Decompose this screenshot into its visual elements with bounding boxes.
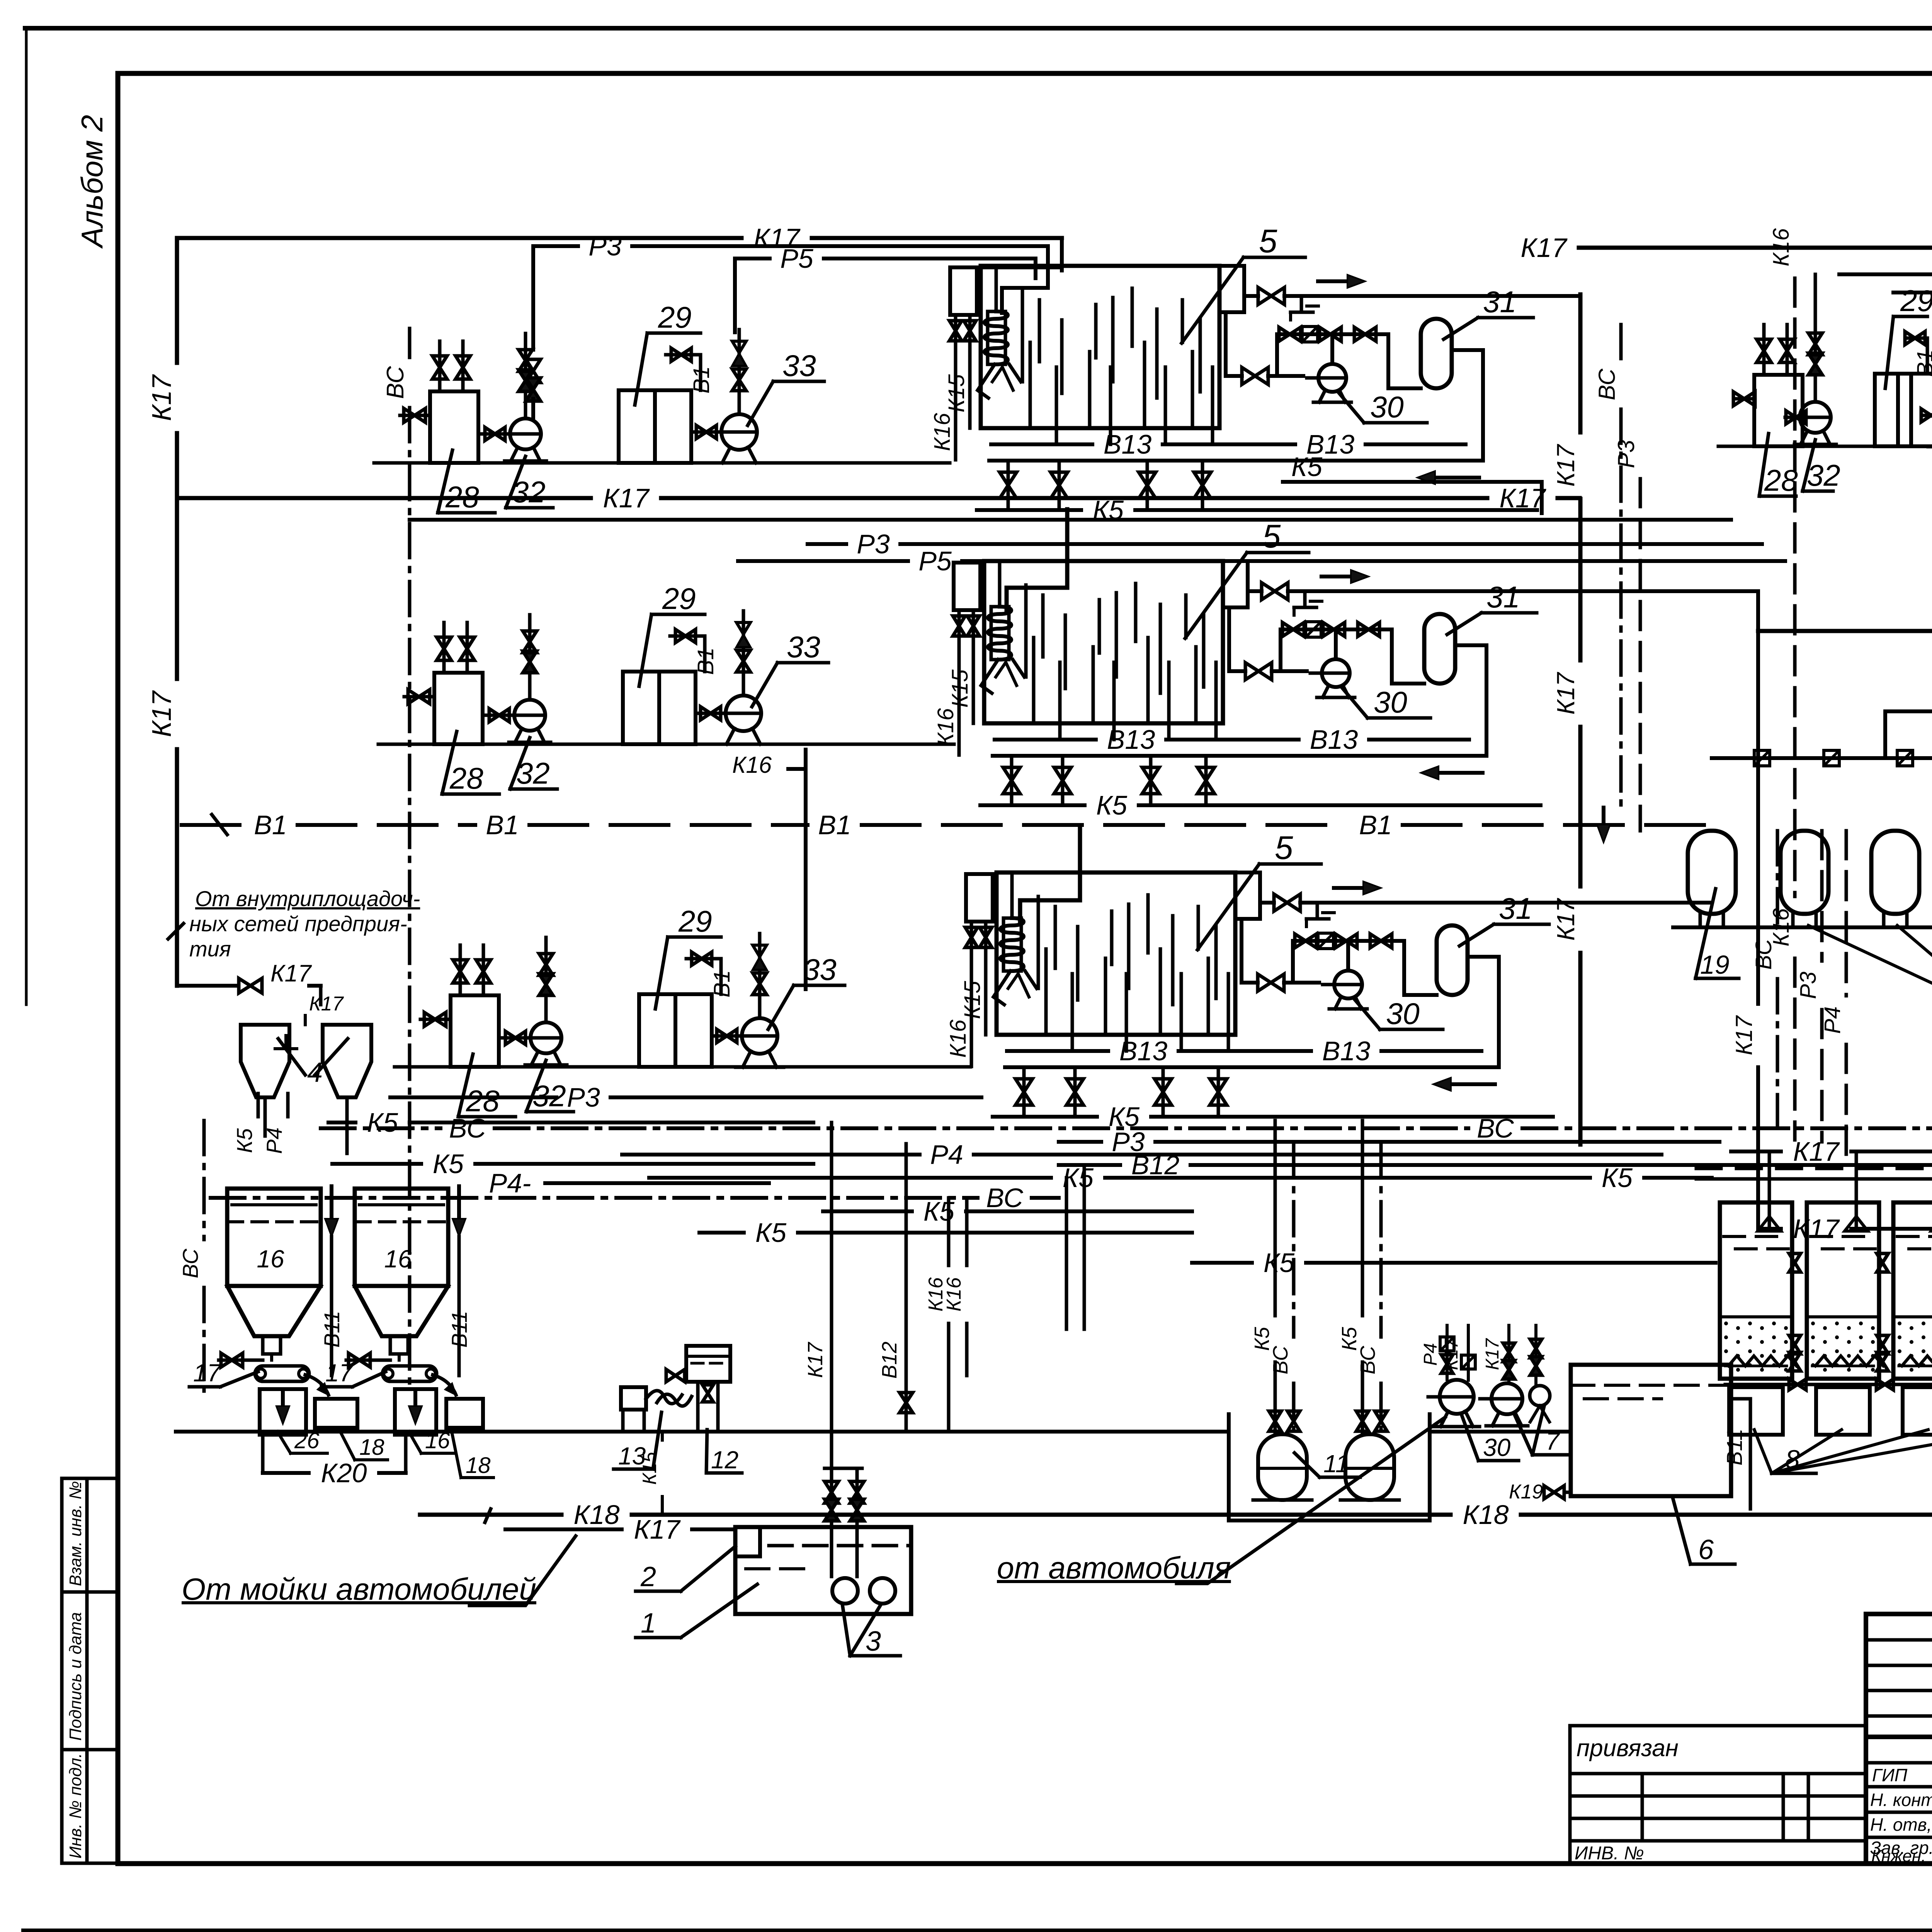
pipe P5 top header [735, 257, 770, 260]
pipe B12 dashed above filters [1696, 1167, 1932, 1170]
svg-text:В1: В1 [486, 810, 519, 840]
filter vent riser [1768, 1151, 1771, 1229]
pipe under dosing sets [410, 518, 1731, 522]
svg-text:28: 28 [449, 761, 483, 795]
svg-text:К15: К15 [947, 669, 973, 707]
svg-text:32: 32 [1807, 458, 1840, 492]
pit with vessels 11 [1229, 1414, 1430, 1520]
pipe K18 main [420, 1513, 561, 1517]
svg-text:Инв. № подл.: Инв. № подл. [66, 1753, 85, 1859]
pump bypass loop [1281, 628, 1392, 631]
drain valves to K5 [1022, 1067, 1026, 1117]
filter interconnection valves [1789, 1253, 1801, 1272]
tank 28 inlet valve [420, 1018, 451, 1021]
risers K5 VS pair b [1361, 1121, 1364, 1316]
svg-text:7: 7 [1546, 1427, 1560, 1455]
pipe VS riser cluster [1776, 831, 1779, 930]
pipe P3 riser cluster [1820, 831, 1824, 961]
pipe B1 into tank 29 [1926, 338, 1929, 374]
pipe K17 from washing [505, 1527, 622, 1531]
flotation tank 5 shell [997, 872, 1235, 1035]
vessel manifold [1883, 711, 1887, 758]
pipe K5 right lower [1192, 1261, 1252, 1265]
pipe P5 drop with check valve [758, 934, 762, 1018]
valve 13-12 [666, 1369, 685, 1382]
bypass valve b [1323, 622, 1345, 636]
recirculation valve [1242, 367, 1268, 384]
vertical vessels 19/21/25 [1688, 831, 1736, 914]
arrow feeder a [305, 1375, 328, 1395]
risers from tank 1 [830, 1122, 833, 1466]
flotation tank 5 internal pipes [1037, 896, 1040, 988]
pipe B13 collector [1007, 1049, 1108, 1053]
svg-text:Альбом 2: Альбом 2 [75, 115, 109, 249]
bypass valve a [1279, 327, 1301, 341]
svg-text:Р4: Р4 [262, 1128, 286, 1154]
pipe P3 drop with valves [524, 333, 527, 418]
recirculation drop pipe [1227, 607, 1231, 671]
svg-text:Взам. инв. №: Взам. инв. № [66, 1481, 85, 1586]
receiving tank 1 [735, 1527, 911, 1614]
svg-text:К17: К17 [804, 1342, 827, 1378]
ejector 12 box [686, 1346, 730, 1382]
bypass valve b [1320, 327, 1341, 341]
svg-text:от автомобиля: от автомобиля [997, 1551, 1231, 1585]
svg-text:2: 2 [640, 1561, 656, 1592]
solution tank 29 [623, 672, 659, 744]
svg-text:К16: К16 [933, 708, 958, 746]
pipe K15 K16 risers left of tank [950, 267, 977, 315]
pipe P5 drop with check valve [742, 611, 745, 696]
svg-text:К16: К16 [943, 1277, 965, 1312]
svg-text:К5: К5 [232, 1128, 257, 1153]
svg-text:В1: В1 [1913, 350, 1932, 377]
svg-text:К17: К17 [146, 374, 177, 421]
pipe K17 from tank 5 [1248, 589, 1262, 593]
svg-text:Р3: Р3 [588, 231, 622, 261]
svg-text:К17: К17 [146, 690, 177, 737]
pipe P3 drop with valves [528, 615, 532, 700]
svg-text:ВС: ВС [449, 1113, 486, 1143]
binding box [1570, 1726, 1866, 1864]
pipe to pressure vessel [1388, 334, 1421, 388]
hopper 4 left [241, 1025, 289, 1097]
pipe K17 to hoppers [177, 984, 236, 988]
dosing pump 33 [691, 430, 721, 434]
svg-text:К17: К17 [1793, 1136, 1840, 1167]
svg-text:Р5: Р5 [918, 546, 952, 576]
flotation tank 5 outlet box [1219, 266, 1244, 312]
pipe to pressure vessel [1392, 629, 1424, 684]
svg-text:К17: К17 [270, 960, 312, 987]
pipe P3 drop with valves [1814, 317, 1817, 402]
bypass square fitting [1318, 933, 1333, 949]
pipe B1 into tank 29 [703, 636, 707, 672]
solution tank 28 [434, 673, 483, 744]
bypass square fitting [1302, 327, 1318, 342]
pump 30 bottom [1440, 1380, 1474, 1414]
svg-text:К17: К17 [1499, 483, 1546, 513]
svg-text:К17: К17 [1731, 1015, 1757, 1055]
pipe P3 under unit3 right [1059, 1140, 1101, 1144]
svg-text:К19: К19 [1509, 1481, 1543, 1503]
flow arrow [1318, 279, 1355, 283]
svg-text:К17: К17 [1552, 672, 1580, 714]
bypass valve c [1358, 622, 1379, 636]
equipment ground line [176, 1430, 1229, 1434]
svg-text:11: 11 [1323, 1450, 1349, 1478]
svg-text:Р4: Р4 [1820, 1007, 1845, 1034]
bypass valve c [1370, 934, 1392, 948]
page top border line [25, 26, 1932, 31]
pipe K5 under tank [977, 508, 1081, 512]
sludge tank 16 left [227, 1189, 321, 1286]
pipe P5 riser to pump 33 set 1 [733, 259, 737, 332]
svg-text:Подпись и дата: Подпись и дата [66, 1612, 85, 1741]
pipe K17 riser second [1756, 591, 1760, 1004]
solution tank 29 [639, 994, 675, 1067]
flotation tank 5 internal pipes [1024, 585, 1028, 677]
svg-text:В1: В1 [689, 366, 714, 394]
svg-text:К5: К5 [1291, 452, 1323, 482]
pipe K17 from tank 5 [1260, 901, 1274, 905]
bypass valve b [1335, 934, 1357, 948]
pipe K5 central b [328, 1121, 355, 1124]
screw feeder 17 right [383, 1366, 437, 1381]
svg-text:От внутриплощадоч-: От внутриплощадоч- [195, 886, 420, 911]
svg-text:Н. контр.: Н. контр. [1870, 1790, 1932, 1810]
svg-text:К17: К17 [634, 1514, 681, 1544]
pipe to pressure vessel [1404, 941, 1437, 995]
pipe B13 return [993, 754, 1486, 758]
page bottom line [23, 1929, 1932, 1932]
svg-text:30: 30 [1386, 997, 1420, 1031]
svg-text:5: 5 [1259, 223, 1277, 260]
equipment floor line [395, 1065, 970, 1069]
svg-text:К16: К16 [732, 752, 772, 778]
pipe K5 central c [699, 1231, 744, 1235]
svg-text:В12: В12 [878, 1342, 901, 1379]
manifold squares [1754, 750, 1770, 766]
pipe P4 riser cluster [1845, 831, 1848, 996]
tank 28 top valves [1762, 325, 1766, 375]
svg-text:К15: К15 [944, 374, 969, 412]
flotation tank 5 outlet box [1223, 561, 1248, 607]
svg-text:Р4: Р4 [930, 1139, 963, 1170]
pipe P5 drop with check valve [738, 330, 741, 414]
svg-text:18: 18 [359, 1435, 384, 1460]
pipe from vessel 31 to B13 [1455, 645, 1486, 756]
tank 5 outlet valve [1274, 894, 1300, 911]
recirculation drop pipe [1224, 312, 1228, 376]
pressure tank 31 [1424, 614, 1455, 684]
dosing pump 32 [483, 714, 514, 717]
svg-text:28: 28 [466, 1084, 500, 1118]
svg-text:31: 31 [1483, 285, 1517, 319]
container 16 small [395, 1389, 436, 1435]
container 18 left [315, 1399, 357, 1428]
svg-text:В1: В1 [254, 810, 287, 840]
svg-text:К5: К5 [1096, 790, 1128, 820]
svg-text:5: 5 [1262, 518, 1281, 555]
svg-text:В13: В13 [1107, 724, 1155, 755]
pressure tank 31 [1437, 925, 1468, 995]
svg-text:ГИП: ГИП [1872, 1765, 1908, 1785]
pipe K17 main top header [177, 236, 742, 240]
pipe K5 under tank [980, 803, 1085, 807]
svg-text:29: 29 [1900, 284, 1932, 318]
tank 16 outlet valves [263, 1336, 281, 1354]
svg-text:К17: К17 [603, 483, 650, 513]
svg-text:31: 31 [1499, 891, 1532, 925]
return flow arrow [1427, 476, 1479, 480]
svg-text:3: 3 [866, 1626, 881, 1657]
pump bypass loop [1293, 939, 1404, 943]
svg-text:К17: К17 [309, 993, 344, 1015]
tank 28 top valves [438, 341, 442, 391]
equipment floor line [1718, 445, 1932, 448]
pipe K17 left riser [175, 238, 179, 363]
bypass valve c [1354, 327, 1376, 341]
svg-text:31: 31 [1486, 580, 1520, 614]
title block frame [1866, 1614, 1932, 1864]
pipe K17 lower right segment [1758, 1227, 1781, 1231]
solution tank 28 [451, 995, 499, 1067]
svg-text:Н. отв,: Н. отв, [1870, 1815, 1932, 1835]
svg-text:Р3: Р3 [1796, 972, 1821, 999]
svg-text:30: 30 [1374, 685, 1407, 719]
pipe K16 pair risers unit3 down [947, 1198, 951, 1265]
pipe B13 collector [995, 738, 1096, 742]
svg-text:30: 30 [1370, 390, 1404, 424]
dosing pump 32 [499, 1036, 530, 1040]
dosing pump 32 [478, 432, 509, 436]
page left border line [25, 28, 28, 1005]
solution tank 28 [430, 391, 478, 463]
left stamp column [62, 1478, 118, 1863]
sludge tank 16 right [355, 1189, 448, 1286]
pipe from vessel 31 to B13 [1452, 350, 1483, 461]
svg-text:К17: К17 [1520, 233, 1568, 263]
svg-text:ВС: ВС [1594, 368, 1620, 400]
arrow feeder b [433, 1375, 456, 1395]
svg-text:1: 1 [641, 1608, 656, 1639]
svg-text:Р5: Р5 [780, 243, 814, 274]
feed bus into flotation unit 3 [1020, 828, 1080, 923]
hydroelevator 13 left [621, 1387, 646, 1410]
pipe P3 under unit3 left [390, 1095, 556, 1099]
flotation tank 5 shell [984, 561, 1223, 723]
svg-text:В13: В13 [1104, 429, 1152, 459]
drain valves to K5 [1007, 461, 1010, 510]
svg-text:Р3: Р3 [1613, 440, 1639, 468]
pipe B1 into tank 29 [699, 355, 702, 390]
pipe P3 top header [533, 244, 578, 248]
svg-text:29: 29 [662, 582, 696, 616]
recirculation valve [1245, 663, 1272, 680]
equipment floor line [378, 743, 954, 746]
pipe K17 second header [177, 496, 591, 500]
filter B10 bottom collector [1725, 1383, 1932, 1386]
svg-text:тия: тия [189, 937, 231, 961]
pipe VS dash-dot riser left [408, 328, 412, 357]
flotation tank 5 sludge funnel [978, 364, 995, 398]
recirculation drop pipe [1240, 919, 1243, 983]
svg-text:привязан: привязан [1577, 1735, 1679, 1762]
pipe B13 return [1005, 1065, 1499, 1069]
pipe K20 [263, 1471, 309, 1475]
svg-text:К5: К5 [1063, 1163, 1094, 1193]
pipe K17 from tank 5 [1244, 294, 1258, 298]
flotation tank 5 aerator coil [1000, 918, 1024, 971]
flow arrow [1334, 886, 1371, 890]
container 26 [260, 1389, 306, 1435]
svg-text:К18: К18 [573, 1500, 619, 1530]
vessel 11 a [1258, 1434, 1307, 1500]
sampling tap [1303, 591, 1307, 607]
pipe VS central second [211, 1196, 978, 1200]
dosing pump 33 [696, 712, 725, 715]
svg-text:ИНВ. №: ИНВ. № [1575, 1843, 1644, 1864]
pipe P3 riser to dosing set 1 [531, 246, 535, 350]
svg-text:В13: В13 [1119, 1036, 1168, 1066]
svg-text:18: 18 [466, 1453, 491, 1478]
svg-text:К18: К18 [1463, 1500, 1509, 1530]
pipe B1 long dashed main [182, 823, 243, 827]
return flow arrow [1443, 1082, 1495, 1086]
svg-text:К5: К5 [755, 1218, 787, 1248]
svg-text:К5: К5 [433, 1149, 464, 1179]
svg-text:16: 16 [257, 1245, 284, 1273]
flotation tank 5 shell [981, 266, 1219, 428]
filter vent riser [1855, 1151, 1858, 1229]
tank 5 outlet valve [1258, 287, 1284, 304]
flotation tank 5 internal pipes [1021, 290, 1024, 382]
pipe VS riser bottom left [202, 1121, 206, 1240]
svg-text:ВС: ВС [382, 366, 409, 399]
svg-text:К5: К5 [1264, 1248, 1295, 1278]
svg-text:ВС: ВС [1269, 1345, 1292, 1374]
feed bus into flotation unit 2 [1007, 509, 1067, 612]
svg-text:Р4-: Р4- [489, 1168, 531, 1198]
svg-text:Кнжен.: Кнжен. [1871, 1847, 1926, 1866]
pipe K15 K16 risers left of tank [966, 874, 993, 922]
svg-text:30: 30 [1483, 1434, 1511, 1461]
pump 7 a [1492, 1383, 1522, 1414]
pipe P3 drop with valves [544, 937, 548, 1022]
svg-text:33: 33 [787, 630, 820, 664]
svg-text:33: 33 [782, 349, 816, 383]
flotation tank 5 sludge funnel [993, 971, 1010, 1005]
bypass valve a [1295, 934, 1316, 948]
svg-text:К17: К17 [1482, 1338, 1503, 1370]
svg-text:В12: В12 [1131, 1150, 1180, 1180]
svg-text:К15: К15 [639, 1452, 660, 1485]
equipment floor line [374, 461, 950, 465]
pipe P4 central main [622, 1153, 920, 1156]
pump 7 b small [1530, 1386, 1550, 1406]
svg-text:28: 28 [1764, 463, 1798, 497]
vessel ground line right [1673, 925, 1932, 929]
flotation tank 5 aerator coil [988, 607, 1011, 660]
svg-text:От мойки автомобилей: От мойки автомобилей [182, 1572, 536, 1606]
svg-text:17: 17 [325, 1359, 354, 1387]
svg-text:В13: В13 [1310, 724, 1358, 755]
svg-text:ВС: ВС [986, 1183, 1023, 1213]
svg-text:К17: К17 [1552, 898, 1580, 940]
risers above pumps 30 7 [1446, 1325, 1449, 1379]
screw feeder 17 left [255, 1366, 309, 1381]
svg-text:К16: К16 [1769, 908, 1794, 946]
tank 28 top valves [442, 622, 446, 673]
solution tank 28 [1754, 375, 1803, 446]
pipe K17 big riser arrow [1602, 808, 1605, 833]
risers K5 VS pair a [1274, 1121, 1277, 1316]
pipe B1 into tank 29 [719, 959, 723, 994]
svg-text:К16: К16 [930, 413, 955, 451]
flotation tank 5 sludge funnel [981, 660, 998, 693]
tank 28 top valves [459, 945, 462, 995]
pressure pump 30 [1318, 364, 1346, 392]
svg-text:К20: К20 [321, 1458, 367, 1488]
tank 28 inlet valve [1735, 397, 1754, 401]
svg-text:В1: В1 [1359, 810, 1392, 840]
pressure tank 31 [1421, 319, 1452, 388]
pipe P5 mid header unit2 [738, 559, 908, 563]
pipe B1 right header [1885, 709, 1932, 713]
svg-text:К5: К5 [923, 1196, 955, 1226]
svg-text:29: 29 [678, 904, 712, 938]
pipe B13 return [989, 459, 1483, 463]
pump bypass loop [1277, 332, 1388, 336]
pipe from vessel 31 to B13 [1468, 957, 1499, 1067]
solution tank 29 [619, 390, 655, 463]
sampling tap [1300, 296, 1303, 312]
recirculation valve [1258, 974, 1284, 991]
svg-text:29: 29 [658, 300, 692, 334]
svg-text:К17: К17 [1793, 1214, 1840, 1244]
svg-text:К5: К5 [1602, 1163, 1633, 1193]
svg-text:Р3: Р3 [567, 1082, 600, 1112]
svg-text:ВС: ВС [1356, 1345, 1379, 1374]
pipe K17 return bottom right unit4 [1758, 629, 1932, 633]
hopper 4 right [323, 1025, 371, 1097]
flotation tank 6 [1571, 1365, 1731, 1496]
solution tank 29 [1875, 374, 1911, 446]
svg-text:ВС: ВС [178, 1248, 202, 1278]
flotation tank 5 outlet box [1235, 872, 1260, 919]
svg-text:Р3: Р3 [857, 529, 890, 559]
svg-text:К17: К17 [1441, 1338, 1462, 1370]
pipe P3 mid header unit2 [808, 542, 846, 546]
pipe K5 under tank [993, 1115, 1097, 1119]
vessel 11 b [1345, 1434, 1394, 1500]
dosing pump 32 [1785, 416, 1805, 419]
feed bus into flotation unit 1 [1046, 246, 1050, 288]
svg-text:В13: В13 [1322, 1036, 1371, 1066]
svg-text:12: 12 [711, 1446, 738, 1474]
svg-text:19: 19 [1700, 950, 1730, 980]
pipe B13 collector [991, 442, 1092, 446]
svg-text:ных сетей предприя-: ных сетей предприя- [189, 912, 407, 936]
filters 8 [1720, 1202, 1792, 1379]
pipe K5 P4 risers to tanks 16 [257, 1094, 260, 1117]
flow arrow [1321, 575, 1359, 578]
svg-text:В1: В1 [709, 970, 735, 998]
dosing pump 33 [712, 1034, 741, 1038]
svg-text:33: 33 [803, 952, 837, 986]
bypass valve a [1282, 622, 1304, 636]
